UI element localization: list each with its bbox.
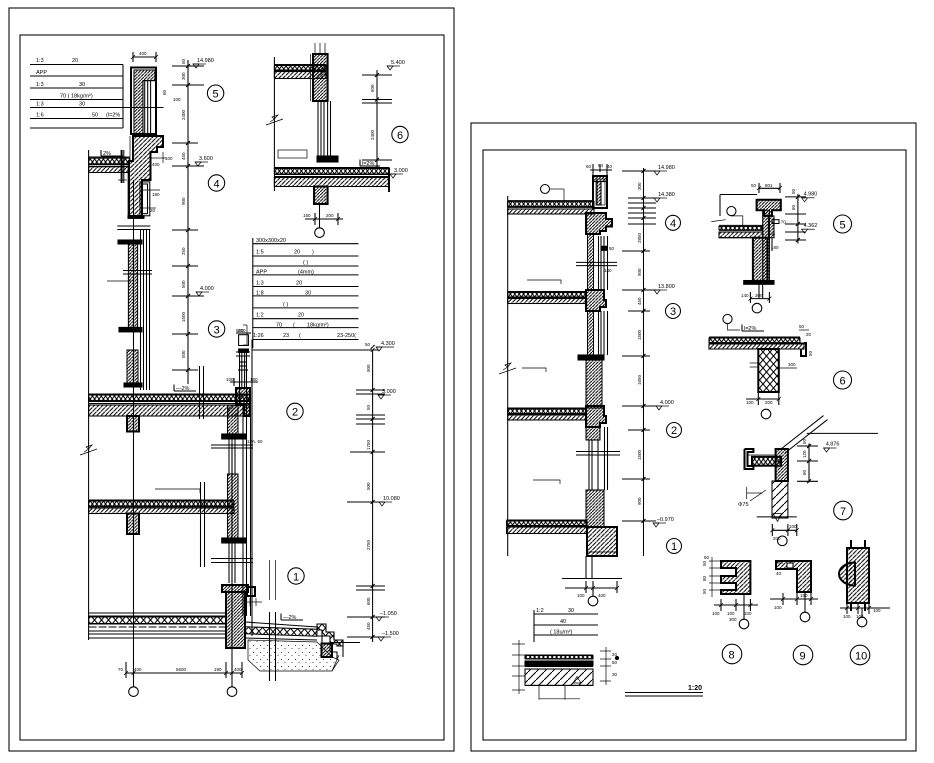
svg-text:5.400: 5.400 (391, 60, 405, 66)
svg-text:20: 20 (612, 652, 618, 657)
rain pipe above slab2 (226, 350, 258, 405)
svg-text:3: 3 (214, 324, 220, 336)
svg-text:300: 300 (637, 182, 642, 190)
curb block (322, 644, 333, 658)
svg-text:1750: 1750 (366, 439, 371, 450)
sill band below cornice (128, 216, 144, 219)
svg-text:9: 9 (800, 651, 806, 663)
right sheet inner thick border (483, 150, 906, 740)
leader box (278, 150, 307, 158)
cornice / eave mass (detail 4 area) (117, 136, 173, 230)
svg-text:( ): ( ) (303, 260, 308, 266)
level markers (193, 58, 214, 296)
svg-text:40: 40 (607, 164, 613, 169)
svg-text:4.876: 4.876 (826, 442, 840, 448)
svg-text:84: 84 (598, 163, 604, 168)
svg-text:20: 20 (294, 250, 300, 256)
ground slab (507, 520, 588, 534)
svg-text:100: 100 (165, 156, 173, 161)
svg-text:100: 100 (774, 605, 782, 610)
steps (317, 624, 343, 657)
svg-text:1: 1 (293, 571, 299, 583)
grid line B (231, 443, 233, 687)
svg-text:60: 60 (162, 89, 167, 95)
bottom dimension line and grid bubbles (118, 662, 244, 696)
svg-text:300: 300 (181, 72, 186, 80)
detail5 bubble (834, 215, 852, 233)
svg-text:140: 140 (741, 293, 749, 298)
svg-text:450: 450 (637, 297, 642, 305)
svg-text:20: 20 (296, 281, 302, 287)
svg-text:3.000: 3.000 (394, 168, 408, 174)
storey 2->1 window + wall (533, 427, 620, 527)
svg-text:1650: 1650 (637, 374, 642, 385)
svg-text:7: 7 (840, 506, 846, 518)
sill (744, 281, 774, 285)
svg-text:500: 500 (181, 280, 186, 288)
expansion joint pair at slab3 (200, 482, 202, 567)
slab with overhang (709, 336, 800, 338)
wall below (753, 238, 768, 282)
svg-text:50: 50 (365, 342, 371, 347)
svg-text:50: 50 (609, 246, 615, 251)
svg-text:200: 200 (755, 293, 763, 298)
svg-text:30: 30 (79, 102, 85, 108)
svg-text:APP: APP (36, 70, 47, 76)
svg-text:600: 600 (370, 84, 375, 92)
svg-text:150: 150 (303, 213, 311, 218)
svg-text:600: 600 (366, 597, 371, 605)
svg-text:100: 100 (856, 614, 864, 619)
roof slab (719, 224, 763, 226)
svg-text:1:8: 1:8 (256, 291, 264, 297)
svg-text:500: 500 (236, 328, 244, 333)
upper window strip between sills (107, 230, 152, 390)
bottom lines (757, 516, 797, 518)
svg-text:100: 100 (744, 611, 752, 616)
svg-text:50: 50 (92, 113, 98, 119)
leader (155, 489, 200, 493)
svg-text:180: 180 (152, 192, 160, 197)
svg-text:30: 30 (612, 672, 618, 677)
svg-text:( 18u/m²): ( 18u/m²) (550, 630, 572, 636)
slab level 2 (508, 406, 606, 427)
expansion joint pair at slab2 (199, 366, 201, 419)
svg-text:6: 6 (840, 375, 846, 387)
svg-text:400: 400 (598, 593, 606, 598)
svg-text:18kg/m²): 18kg/m²) (307, 323, 329, 329)
svg-text:3: 3 (670, 306, 676, 318)
svg-text:100: 100 (226, 377, 234, 382)
svg-text:1500: 1500 (637, 329, 642, 340)
svg-text:300: 300 (788, 362, 796, 367)
svg-text:180: 180 (250, 377, 258, 382)
svg-text:50: 50 (702, 560, 707, 566)
svg-text:(: ( (293, 323, 295, 329)
svg-text:100: 100 (577, 593, 585, 598)
svg-text:70: 70 (118, 667, 124, 672)
mid window dim pair (211, 444, 253, 446)
svg-text:250: 250 (181, 247, 186, 255)
spec table texts (36, 58, 120, 119)
svg-text:400: 400 (234, 667, 242, 672)
svg-text:50: 50 (366, 404, 371, 410)
scale bar (625, 685, 703, 696)
svg-text:23: 23 (283, 333, 289, 339)
detail5 parapet wall top (131, 68, 181, 135)
svg-text:50: 50 (808, 350, 813, 356)
svg-text:1500: 1500 (637, 449, 642, 460)
right sheet outer thin border (471, 123, 916, 751)
svg-text:40: 40 (560, 619, 566, 625)
svg-text:50: 50 (704, 555, 710, 560)
svg-text:2: 2 (671, 425, 677, 437)
mid transom (123, 270, 152, 272)
svg-text:400: 400 (139, 51, 147, 56)
gutter channel left (745, 449, 754, 469)
break symbol (84, 445, 92, 452)
svg-text:140: 140 (604, 268, 612, 273)
svg-text:3.600: 3.600 (199, 156, 213, 162)
bottom dim (750, 298, 769, 300)
svg-text:8: 8 (729, 650, 735, 662)
bottom dim + grid bubble (305, 218, 343, 220)
expansion joint at ground (270, 560, 276, 681)
svg-text:1:3: 1:3 (36, 58, 44, 64)
svg-text:2400: 2400 (181, 109, 186, 120)
svg-text:(4mm): (4mm) (298, 270, 314, 276)
right wall hatched (776, 449, 788, 481)
svg-text:900: 900 (181, 197, 186, 205)
parapet top (586, 163, 613, 208)
left vertical + break (273, 57, 275, 191)
svg-text:APP: APP (256, 270, 267, 276)
svg-text:100: 100 (843, 614, 851, 619)
outdoor pavement and steps (245, 614, 360, 672)
svg-text:100: 100 (873, 608, 881, 613)
bottom dim (746, 398, 780, 400)
svg-text:3.000: 3.000 (382, 389, 396, 395)
cornice bulge (586, 213, 612, 234)
right frame piece (768, 216, 774, 238)
wall below slab (314, 187, 328, 205)
svg-text:4.000: 4.000 (200, 286, 214, 292)
svg-text:1: 1 (671, 541, 677, 553)
svg-text:60: 60 (586, 164, 592, 169)
detail3 railing above (230, 328, 258, 387)
svg-text:801: 801 (765, 183, 773, 188)
top dims (759, 187, 780, 189)
svg-text:150: 150 (800, 593, 808, 598)
svg-text:200: 200 (765, 400, 773, 405)
left sheet outer thin border (9, 8, 454, 751)
slab level 13.800 (508, 290, 606, 311)
ground slab interior (89, 613, 226, 638)
gutter bottom bar (752, 457, 781, 466)
svg-text:60: 60 (802, 469, 807, 475)
svg-text:1:3: 1:3 (36, 102, 44, 108)
svg-text:400: 400 (134, 667, 142, 672)
svg-text:70: 70 (276, 323, 282, 329)
svg-text:1:2: 1:2 (536, 608, 544, 614)
bottom dims (714, 604, 758, 606)
svg-text:900: 900 (637, 497, 642, 505)
right side ticks on cornice (151, 157, 167, 159)
svg-text:20: 20 (150, 208, 156, 213)
circled detail numbers left panel (207, 85, 408, 584)
right dims (600, 650, 611, 652)
bottom slab (274, 167, 389, 169)
interior wall face long line (80, 150, 97, 640)
left ticks (512, 643, 525, 645)
svg-text:23-250(: 23-250( (337, 333, 356, 339)
svg-text:20: 20 (72, 58, 78, 64)
svg-text:1:5: 1:5 (256, 250, 264, 256)
detail5 top dim 400 (131, 51, 158, 62)
svg-text:1:2: 1:2 (256, 313, 264, 319)
svg-text:50: 50 (181, 58, 186, 64)
lower sill (119, 327, 142, 332)
svg-text:50: 50 (612, 660, 618, 665)
interior face line (507, 196, 509, 556)
svg-text:–0.970: –0.970 (657, 517, 674, 523)
svg-text:10.080: 10.080 (383, 496, 400, 502)
svg-text:50: 50 (702, 588, 707, 594)
svg-text:2750: 2750 (366, 539, 371, 550)
svg-text:100: 100 (746, 400, 754, 405)
svg-text:50: 50 (791, 188, 796, 194)
break symbol (503, 363, 511, 370)
svg-text:70 ( 18kg/m²): 70 ( 18kg/m²) (60, 94, 93, 100)
svg-text:–1.050: –1.050 (380, 611, 397, 617)
svg-text:1:26: 1:26 (253, 333, 264, 339)
svg-text:400: 400 (152, 162, 160, 167)
svg-text:13.800: 13.800 (658, 284, 675, 290)
bottom dims (770, 598, 818, 600)
svg-text:6: 6 (397, 130, 403, 142)
below stubs (538, 685, 540, 699)
svg-text:4.980: 4.980 (804, 192, 818, 198)
leader (107, 280, 132, 282)
wall below (758, 349, 779, 392)
svg-text:500: 500 (366, 482, 371, 490)
svg-text:100: 100 (173, 97, 181, 102)
500 bracket left (246, 325, 248, 345)
detail7 bubble (834, 501, 853, 520)
left dim chain (upper) (172, 58, 214, 384)
svg-text:Φ75: Φ75 (738, 502, 749, 508)
wall column top (313, 54, 328, 101)
vent pipe symbol (541, 185, 550, 194)
svg-text:4.362: 4.362 (804, 223, 818, 229)
svg-text:4.300: 4.300 (381, 341, 395, 347)
right dim chain (797, 194, 799, 244)
sill (317, 156, 338, 162)
svg-text:1:3: 1:3 (256, 281, 264, 287)
ground floor wall (211, 559, 262, 649)
svg-text:100: 100 (712, 611, 720, 616)
ground line right of steps (331, 642, 360, 644)
svg-text:1:20: 1:20 (688, 685, 702, 692)
detail6 bubble (834, 371, 852, 389)
cap (757, 200, 781, 216)
roof diagonal lines (781, 416, 824, 449)
svg-text:1:6: 1:6 (36, 113, 44, 119)
slab3 (89, 489, 234, 534)
ground line (562, 578, 622, 580)
grid line A (133, 180, 135, 687)
svg-text:50: 50 (803, 341, 808, 347)
window below (317, 101, 319, 156)
svg-text:12A, 50: 12A, 50 (247, 439, 263, 444)
left dims (709, 560, 721, 562)
vent (727, 207, 736, 216)
drip (773, 514, 782, 522)
svg-text:4: 4 (214, 178, 220, 190)
svg-text:5600: 5600 (176, 667, 187, 672)
svg-text:900: 900 (637, 268, 642, 276)
svg-text:30: 30 (568, 608, 574, 614)
svg-text:20: 20 (298, 313, 304, 319)
balcony window column below slab2 (211, 394, 263, 616)
inner wall face pair (121, 150, 123, 183)
svg-text:120: 120 (802, 450, 807, 458)
svg-text:200: 200 (326, 213, 334, 218)
svg-text:50: 50 (799, 324, 805, 329)
dim bottom (565, 587, 617, 589)
window frame right of wall (140, 182, 150, 216)
svg-text:(l=2%: (l=2% (106, 113, 120, 119)
slab2 with balcony (89, 366, 251, 567)
svg-text:(: ( (299, 333, 301, 339)
main dim chain right panel (622, 165, 675, 556)
top slab (274, 64, 326, 66)
svg-text:14.980: 14.980 (197, 58, 214, 64)
right small dims (799, 329, 809, 331)
svg-text:50: 50 (751, 183, 757, 188)
foundation block (562, 517, 674, 606)
svg-text:190: 190 (214, 667, 222, 672)
svg-text:5: 5 (840, 219, 846, 231)
svg-text:500: 500 (181, 350, 186, 358)
svg-text:( ): ( ) (283, 302, 288, 308)
svg-text:40: 40 (776, 571, 782, 576)
left sheet inner thick border (20, 35, 444, 740)
svg-text:14.980: 14.980 (658, 165, 675, 171)
svg-text:14.380: 14.380 (658, 192, 675, 198)
dim chain of detail6 (376, 70, 378, 167)
svg-text:4: 4 (670, 218, 676, 230)
svg-text:30: 30 (79, 82, 85, 88)
svg-text:1:3: 1:3 (36, 82, 44, 88)
svg-text:50: 50 (802, 438, 807, 444)
svg-text:30: 30 (305, 291, 311, 297)
right dim chain (808, 444, 810, 483)
bottom dims (840, 607, 890, 609)
svg-text:4.000: 4.000 (660, 400, 674, 406)
svg-text:900: 900 (366, 364, 371, 372)
svg-text:2: 2 (292, 407, 298, 419)
storey 3->2 window + wall (522, 311, 608, 408)
svg-text:–1.500: –1.500 (382, 631, 399, 637)
roof slab (508, 201, 594, 214)
spec table top-left: row lines (30, 65, 164, 129)
svg-text:100: 100 (727, 611, 735, 616)
slab1 (roof of lower storey, left of wall) (89, 150, 130, 183)
svg-text:60: 60 (791, 204, 796, 210)
parapet back line (720, 194, 757, 196)
svg-text:1500: 1500 (181, 311, 186, 322)
svg-text:300: 300 (729, 617, 737, 622)
circled storey numbers (666, 215, 682, 553)
svg-text:2400: 2400 (370, 129, 375, 140)
svg-text:5: 5 (213, 89, 219, 101)
svg-text:): ) (312, 250, 314, 256)
svg-text:450: 450 (181, 152, 186, 160)
svg-text:100: 100 (789, 524, 797, 529)
svg-text:450: 450 (366, 622, 371, 630)
svg-text:20: 20 (806, 332, 812, 337)
balcony parapet at slab2 (236, 388, 250, 416)
stem (763, 210, 770, 281)
beam under wall (127, 416, 139, 432)
svg-text:180: 180 (771, 245, 779, 250)
svg-text:80: 80 (702, 575, 707, 581)
dims above parapet (590, 169, 612, 171)
stipple ground (248, 640, 339, 671)
storey 4->3 wall (527, 234, 617, 290)
svg-text:10: 10 (855, 651, 867, 663)
svg-text:2850: 2850 (637, 232, 642, 243)
svg-text:300x300x20: 300x300x20 (256, 238, 286, 244)
